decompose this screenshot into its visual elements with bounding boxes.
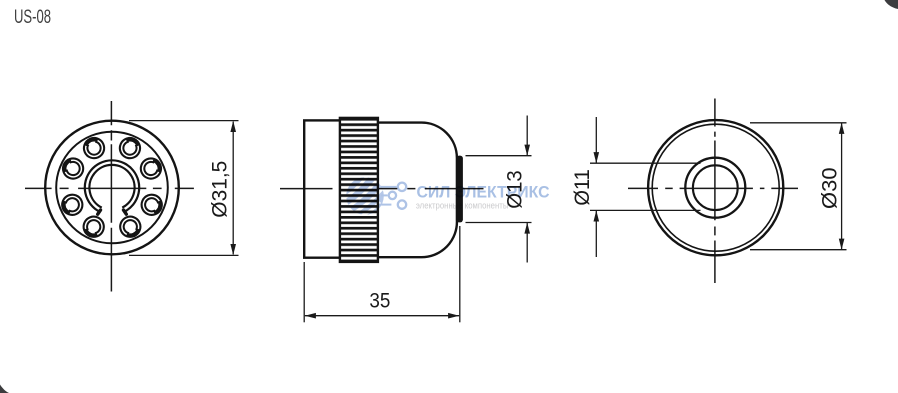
key ring left foot — [98, 210, 101, 214]
dim Ø31,5 top arrow — [230, 121, 236, 132]
contact tip bump — [456, 156, 463, 223]
dim Ø30 top extension line — [750, 122, 847, 124]
center key ring inner arc — [89, 165, 134, 208]
centerline vertical — [714, 99, 716, 284]
second circle — [56, 132, 168, 244]
centerline horizontal — [25, 187, 194, 189]
dim Ø13 upper arrow — [524, 145, 530, 156]
svg-text:Ø11: Ø11 — [570, 169, 594, 206]
bottom-left corner wedge — [0, 385, 9, 393]
pin 8 — [117, 213, 144, 240]
pin 7 — [80, 213, 107, 240]
logo trace 2 — [381, 194, 388, 196]
outer circle — [648, 120, 783, 255]
knurled ring — [340, 118, 378, 262]
dim Ø11 upper arrow — [594, 152, 600, 163]
pin 6 — [138, 191, 165, 218]
dim Ø11 lower leader — [595, 210, 597, 257]
dim Ø30 bottom extension line — [750, 249, 847, 251]
dim 35 left extension line — [303, 262, 305, 322]
svg-text:СИЛ ЭЛЕКТРИКС: СИЛ ЭЛЕКТРИКС — [417, 182, 550, 201]
svg-text:Ø31,5: Ø31,5 — [207, 161, 231, 218]
hole circle Ø11 — [693, 165, 738, 210]
dim 35 right extension line — [459, 226, 461, 322]
logo trace 3 — [378, 204, 391, 206]
pin 3 — [60, 155, 87, 182]
pin 1 — [81, 135, 108, 162]
key ring right foot — [124, 210, 127, 214]
outer circle — [45, 121, 179, 255]
centerline horizontal — [280, 188, 484, 190]
pin 4 — [137, 155, 164, 182]
dim Ø31,5 bottom arrow — [230, 244, 236, 255]
body dome — [378, 123, 457, 258]
outer inner rim circle — [652, 124, 779, 251]
pin 2 — [117, 135, 144, 162]
dim Ø11 lower arrow — [594, 210, 600, 221]
dim 35 right arrow — [448, 313, 459, 319]
dim Ø13 lower leader — [526, 223, 528, 263]
svg-text:US-08: US-08 — [14, 7, 51, 28]
dim Ø13 upper leader — [526, 116, 528, 156]
dim Ø30 line — [841, 123, 843, 250]
dim Ø30 top arrow — [839, 123, 845, 134]
centerline horizontal — [628, 187, 798, 189]
svg-text:Ø30: Ø30 — [818, 167, 842, 209]
top-right corner wedge — [885, 0, 898, 9]
dim Ø13 bottom extension line — [466, 222, 532, 224]
dim Ø31,5 bottom extension line — [129, 254, 239, 256]
boss circle — [685, 158, 745, 218]
dim Ø13 top extension line — [466, 155, 532, 157]
dim Ø31,5 top extension line — [129, 120, 239, 122]
dim Ø13 lower arrow — [524, 223, 530, 234]
logo trace 1 — [381, 186, 397, 188]
dim Ø11 top extension line — [590, 162, 701, 164]
center key ring outer arc — [85, 160, 139, 211]
svg-text:электронные компоненты: электронные компоненты — [416, 200, 509, 210]
dim Ø11 upper leader — [595, 117, 597, 163]
dim Ø11 bottom extension line — [590, 209, 701, 211]
flange rectangle — [304, 120, 341, 257]
centerline vertical — [110, 101, 112, 292]
logo disc — [344, 175, 384, 216]
dim 35 line — [305, 315, 459, 317]
pin 5 — [59, 191, 86, 218]
dim Ø30 bottom arrow — [839, 239, 845, 250]
svg-text:35: 35 — [369, 288, 390, 312]
dim 35 left arrow — [305, 313, 316, 319]
dim Ø31,5 line — [232, 122, 234, 255]
